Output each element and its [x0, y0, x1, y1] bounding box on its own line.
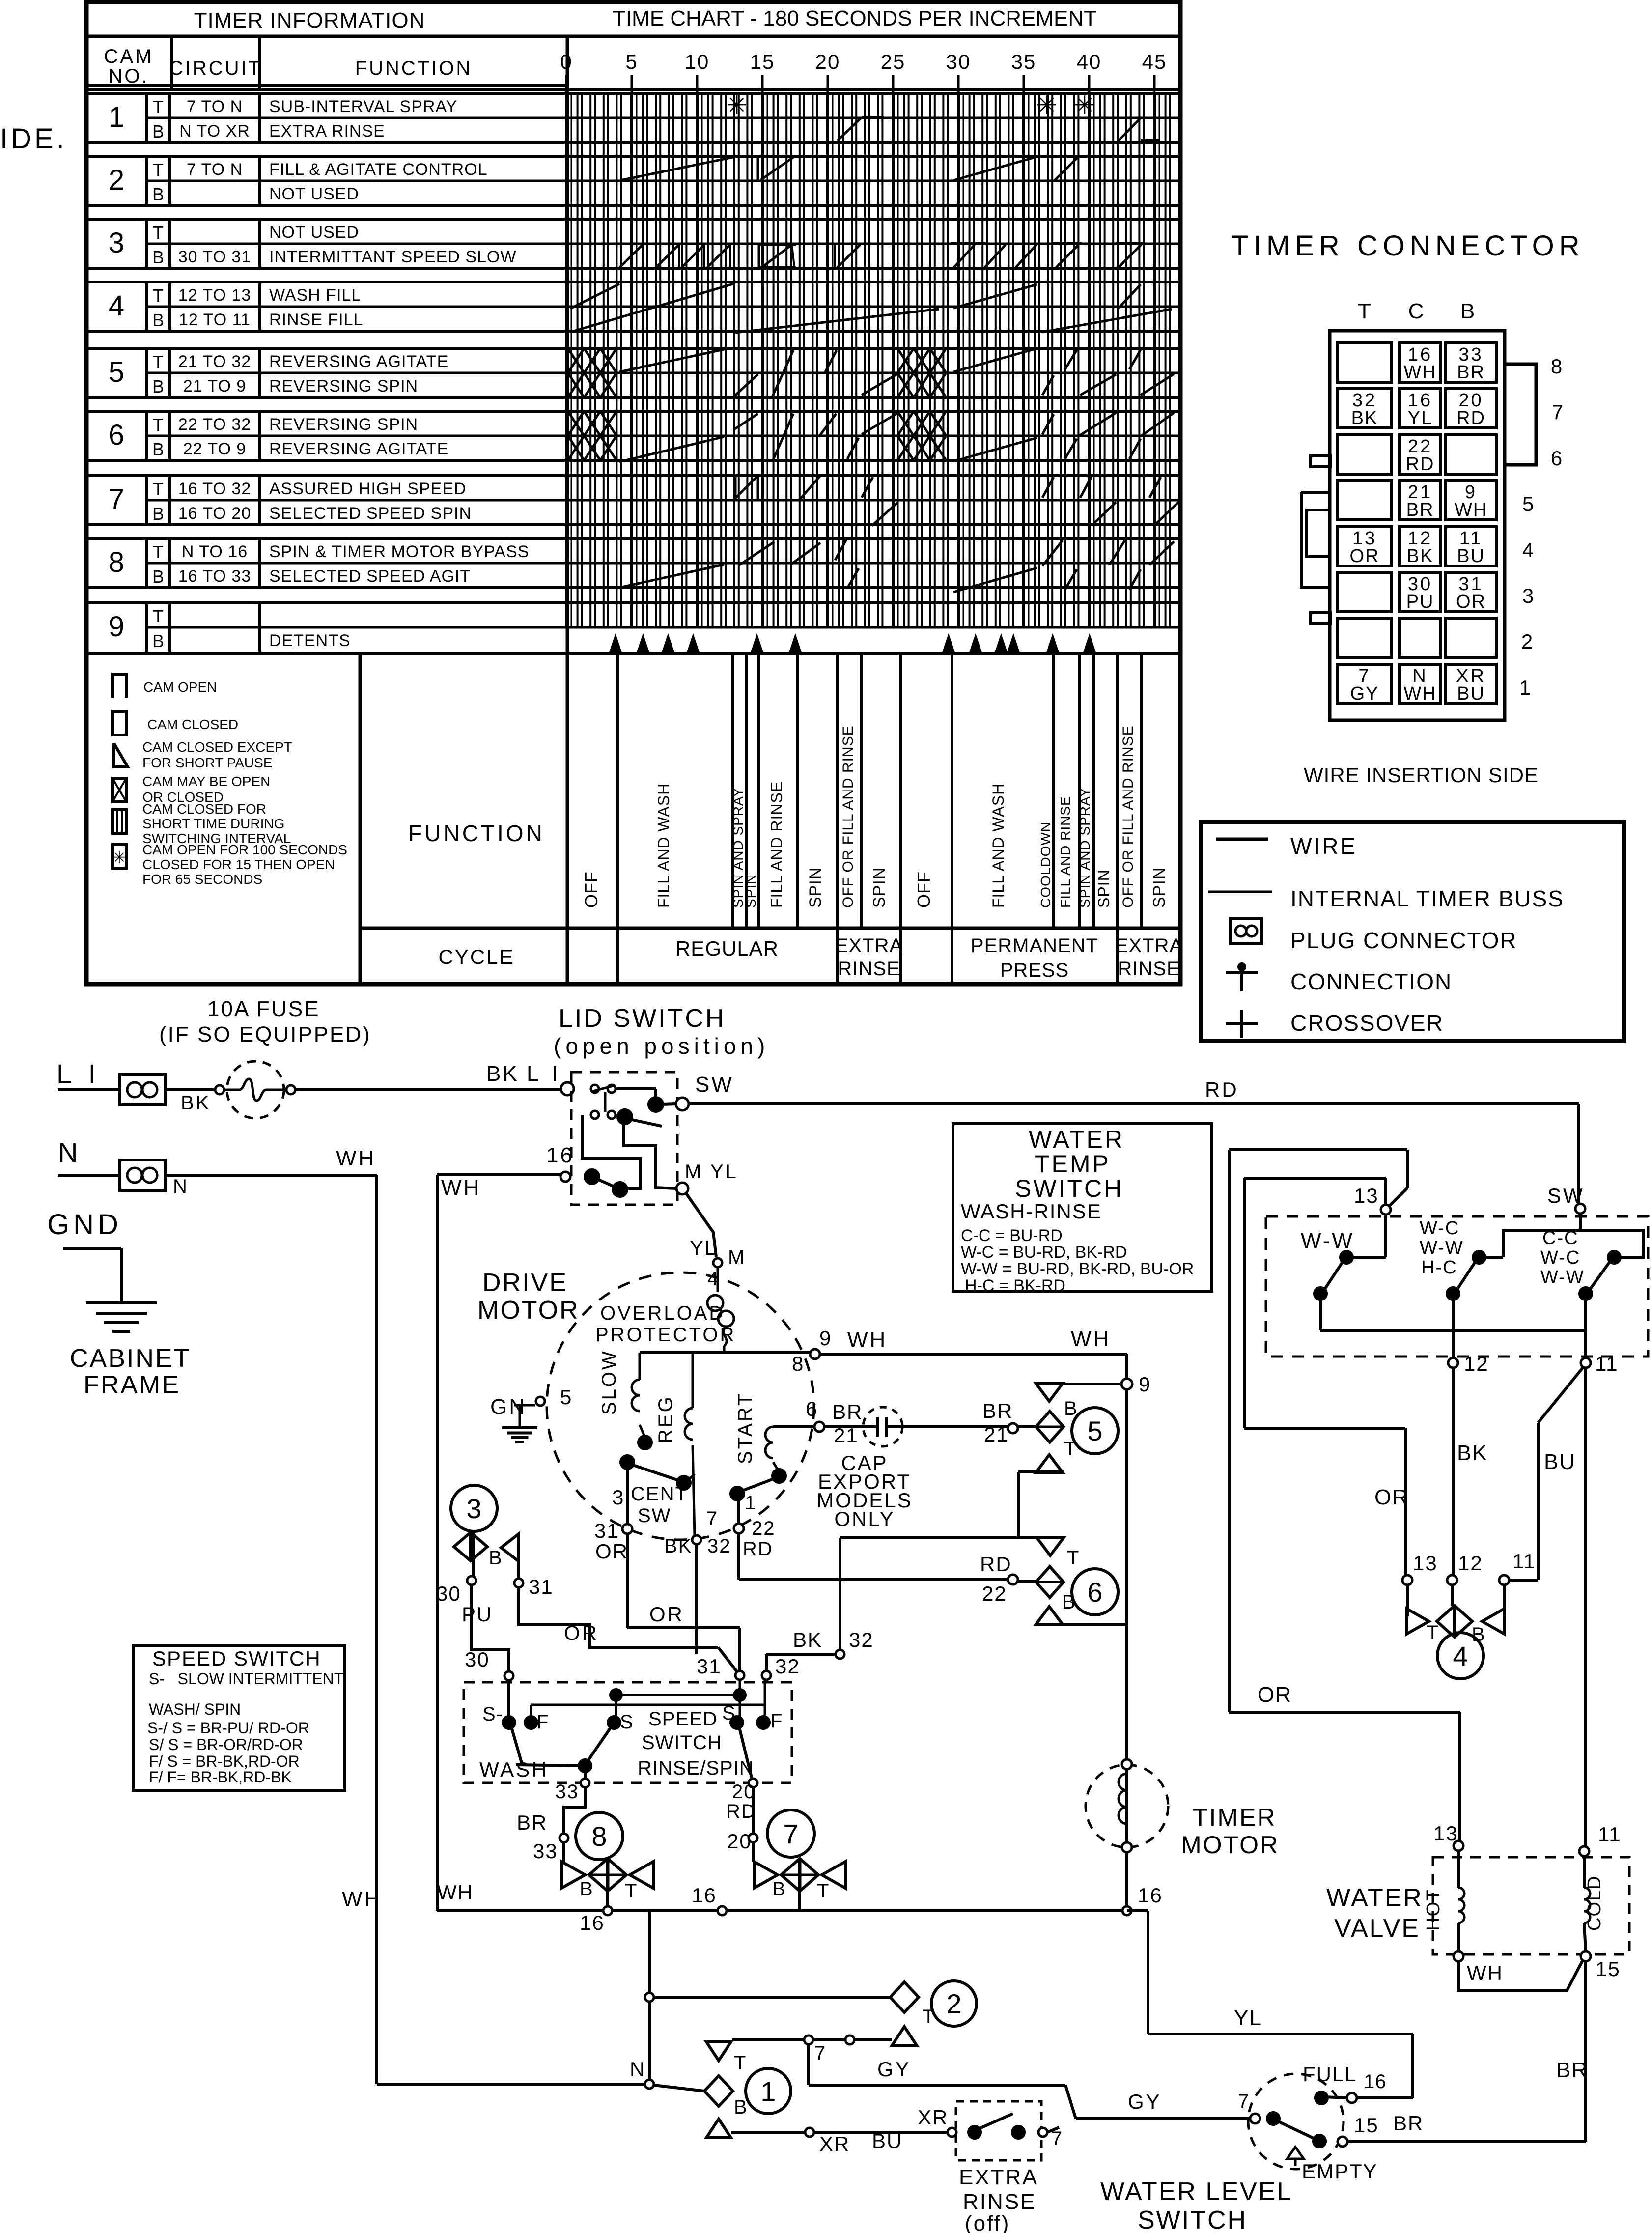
svg-text:FUNCTION: FUNCTION — [408, 820, 545, 846]
svg-text:✳: ✳ — [112, 848, 127, 867]
svg-text:GY: GY — [1350, 683, 1379, 704]
svg-text:SPIN AND SPRAY: SPIN AND SPRAY — [1077, 788, 1092, 908]
svg-text:SW: SW — [1547, 1184, 1585, 1207]
svg-text:16 TO 33: 16 TO 33 — [178, 567, 252, 586]
svg-text:RINSE: RINSE — [1118, 958, 1180, 980]
svg-text:PROTECTOR: PROTECTOR — [595, 1324, 736, 1346]
svg-text:WASH FILL: WASH FILL — [269, 286, 361, 305]
svg-text:(IF SO EQUIPPED): (IF SO EQUIPPED) — [159, 1022, 371, 1046]
svg-text:WH: WH — [1403, 683, 1436, 704]
svg-text:11: 11 — [1595, 1352, 1619, 1375]
svg-text:30: 30 — [946, 50, 971, 73]
svg-text:31: 31 — [594, 1519, 619, 1542]
svg-text:12: 12 — [1464, 1352, 1489, 1375]
svg-text:40: 40 — [1077, 50, 1102, 73]
svg-text:S-: S- — [482, 1703, 503, 1725]
svg-text:XR: XR — [819, 2132, 850, 2155]
svg-text:OR: OR — [1258, 1683, 1292, 1707]
svg-text:DRIVE: DRIVE — [482, 1269, 568, 1297]
svg-text:9: 9 — [109, 611, 124, 643]
svg-text:RINSE/SPIN: RINSE/SPIN — [638, 1757, 754, 1779]
svg-text:WH: WH — [847, 1328, 887, 1352]
svg-text:W-W: W-W — [1420, 1238, 1464, 1258]
svg-text:22 TO 32: 22 TO 32 — [178, 415, 252, 434]
svg-text:SPIN: SPIN — [743, 874, 758, 908]
svg-text:8: 8 — [1551, 355, 1564, 378]
svg-text:BR: BR — [1457, 362, 1485, 383]
svg-text:T: T — [625, 1880, 638, 1902]
svg-text:FILL AND RINSE: FILL AND RINSE — [1058, 796, 1073, 908]
svg-text:SWITCH: SWITCH — [1138, 2206, 1247, 2233]
svg-text:CAM OPEN: CAM OPEN — [143, 679, 217, 695]
svg-text:6: 6 — [109, 419, 124, 451]
svg-text:REG: REG — [655, 1395, 676, 1443]
svg-text:16: 16 — [1138, 1884, 1163, 1907]
svg-text:5: 5 — [1087, 1415, 1102, 1446]
svg-text:S- SLOW INTERMITTENT: S- SLOW INTERMITTENT — [149, 1670, 343, 1688]
svg-text:OFF: OFF — [914, 871, 934, 908]
svg-text:FULL: FULL — [1303, 2063, 1357, 2086]
svg-text:REVERSING AGITATE: REVERSING AGITATE — [269, 352, 448, 371]
svg-text:B: B — [152, 631, 164, 651]
svg-text:SLOW: SLOW — [598, 1349, 620, 1415]
svg-text:LID SWITCH: LID SWITCH — [559, 1004, 726, 1033]
svg-text:7 TO N: 7 TO N — [187, 97, 243, 116]
svg-text:✳: ✳ — [726, 91, 748, 120]
svg-text:3: 3 — [109, 227, 124, 259]
svg-text:FILL AND WASH: FILL AND WASH — [655, 783, 672, 908]
svg-text:20: 20 — [727, 1830, 752, 1853]
svg-text:T: T — [153, 542, 164, 562]
svg-text:FILL AND RINSE: FILL AND RINSE — [768, 781, 785, 908]
svg-text:SWITCH: SWITCH — [1015, 1175, 1123, 1202]
svg-text:11: 11 — [1512, 1550, 1536, 1573]
svg-text:SW: SW — [695, 1073, 734, 1097]
svg-text:CAM CLOSED: CAM CLOSED — [147, 717, 238, 732]
svg-text:S/ S = BR-OR/RD-OR: S/ S = BR-OR/RD-OR — [149, 1736, 303, 1753]
svg-text:SW: SW — [638, 1505, 671, 1526]
svg-text:OR: OR — [564, 1621, 599, 1644]
svg-text:ONLY: ONLY — [834, 1507, 895, 1530]
svg-text:7 TO N: 7 TO N — [187, 160, 243, 179]
svg-text:VALVE: VALVE — [1334, 1914, 1420, 1943]
svg-text:INTERNAL TIMER BUSS: INTERNAL TIMER BUSS — [1290, 886, 1564, 911]
svg-text:WH: WH — [1467, 1961, 1503, 1984]
svg-text:1: 1 — [109, 101, 124, 133]
svg-text:RINSE: RINSE — [963, 2190, 1036, 2214]
svg-text:B: B — [152, 121, 164, 141]
svg-text:W-C = BU-RD, BK-RD: W-C = BU-RD, BK-RD — [961, 1243, 1127, 1262]
svg-text:RD: RD — [980, 1553, 1012, 1576]
svg-text:T: T — [153, 223, 164, 243]
svg-text:YL: YL — [710, 1161, 738, 1183]
svg-text:B: B — [580, 1878, 594, 1900]
svg-text:15: 15 — [1354, 2114, 1379, 2137]
svg-text:13: 13 — [1354, 1184, 1379, 1207]
svg-text:OFF OR FILL AND RINSE: OFF OR FILL AND RINSE — [840, 725, 856, 908]
svg-text:H-C = BK-RD: H-C = BK-RD — [965, 1276, 1065, 1295]
svg-text:B: B — [152, 376, 164, 396]
svg-text:SPIN: SPIN — [1150, 867, 1169, 908]
svg-text:32: 32 — [775, 1655, 800, 1678]
svg-text:30 TO 31: 30 TO 31 — [178, 248, 252, 266]
svg-text:FILL & AGITATE CONTROL: FILL & AGITATE CONTROL — [269, 160, 488, 179]
svg-text:7: 7 — [109, 483, 124, 515]
svg-text:B: B — [152, 566, 164, 587]
svg-text:BR: BR — [982, 1399, 1013, 1422]
svg-text:B: B — [152, 310, 164, 330]
svg-text:8: 8 — [591, 1821, 607, 1852]
svg-text:BK: BK — [1407, 546, 1434, 566]
svg-text:4: 4 — [109, 290, 124, 322]
svg-text:INTERMITTANT SPEED SLOW: INTERMITTANT SPEED SLOW — [269, 248, 516, 266]
svg-text:CAM MAY BE OPEN: CAM MAY BE OPEN — [142, 774, 270, 789]
svg-text:N TO 16: N TO 16 — [182, 542, 248, 561]
svg-text:30: 30 — [465, 1648, 490, 1671]
svg-text:GND: GND — [47, 1209, 122, 1241]
svg-text:T: T — [153, 415, 164, 435]
svg-text:32: 32 — [849, 1628, 874, 1651]
svg-text:CABINET: CABINET — [70, 1344, 191, 1373]
svg-text:WH: WH — [336, 1146, 376, 1170]
svg-text:HOT: HOT — [1423, 1889, 1444, 1931]
svg-text:L I: L I — [56, 1058, 101, 1089]
svg-text:7: 7 — [1238, 2091, 1250, 2112]
svg-text:WASH/ SPIN: WASH/ SPIN — [149, 1700, 241, 1718]
svg-text:3: 3 — [1522, 584, 1535, 607]
svg-text:12 TO 13: 12 TO 13 — [178, 286, 252, 305]
svg-text:20: 20 — [815, 50, 840, 73]
svg-text:RINSE: RINSE — [838, 958, 900, 980]
svg-text:6: 6 — [806, 1397, 818, 1420]
svg-text:FILL AND WASH: FILL AND WASH — [989, 783, 1007, 908]
svg-text:W-W: W-W — [1301, 1229, 1354, 1253]
svg-text:L I: L I — [527, 1062, 561, 1086]
svg-text:RINSE FILL: RINSE FILL — [269, 311, 363, 329]
svg-text:FOR 65 SECONDS: FOR 65 SECONDS — [142, 872, 262, 887]
svg-text:GN: GN — [490, 1395, 527, 1419]
svg-text:PERMANENT: PERMANENT — [971, 935, 1098, 957]
svg-text:T: T — [1067, 1547, 1080, 1569]
svg-text:F/ S = BR-BK,RD-OR: F/ S = BR-BK,RD-OR — [149, 1752, 300, 1770]
svg-text:WIRE INSERTION SIDE: WIRE INSERTION SIDE — [1304, 763, 1539, 787]
svg-text:S: S — [620, 1711, 635, 1733]
svg-text:PU: PU — [462, 1603, 492, 1626]
svg-text:OFF: OFF — [581, 871, 601, 908]
svg-text:BU: BU — [1457, 546, 1485, 566]
svg-text:7: 7 — [814, 2042, 827, 2064]
svg-text:START: START — [734, 1392, 756, 1464]
svg-text:B: B — [152, 184, 164, 204]
svg-text:W-C: W-C — [1540, 1247, 1580, 1268]
svg-text:BR: BR — [1393, 2112, 1424, 2135]
svg-text:(open position): (open position) — [554, 1033, 769, 1059]
svg-text:6: 6 — [1087, 1577, 1102, 1608]
svg-text:N: N — [173, 1176, 189, 1197]
svg-text:GY: GY — [1128, 2090, 1162, 2113]
svg-text:10A FUSE: 10A FUSE — [207, 997, 320, 1021]
svg-text:B: B — [152, 504, 164, 524]
svg-text:31: 31 — [697, 1655, 722, 1678]
svg-text:5: 5 — [109, 356, 124, 388]
svg-text:FRAME: FRAME — [84, 1371, 180, 1399]
svg-text:NO.: NO. — [108, 65, 149, 87]
svg-text:GY: GY — [877, 2058, 911, 2081]
svg-text:B: B — [772, 1878, 787, 1900]
svg-text:WASH: WASH — [479, 1758, 548, 1781]
svg-text:BK: BK — [793, 1628, 822, 1651]
svg-text:OR: OR — [649, 1603, 684, 1626]
svg-text:RD: RD — [1456, 408, 1485, 428]
svg-text:5: 5 — [560, 1385, 573, 1409]
svg-text:CIRCUIT: CIRCUIT — [169, 57, 262, 79]
svg-text:12 TO 11: 12 TO 11 — [179, 311, 251, 329]
svg-text:W-C: W-C — [1420, 1218, 1459, 1239]
svg-text:W-W = BU-RD, BK-RD, BU-OR: W-W = BU-RD, BK-RD, BU-OR — [961, 1260, 1194, 1278]
svg-text:CROSSOVER: CROSSOVER — [1290, 1010, 1444, 1036]
svg-text:B: B — [489, 1547, 504, 1569]
svg-text:SPEED SWITCH: SPEED SWITCH — [152, 1647, 321, 1670]
svg-text:SPIN: SPIN — [870, 867, 889, 908]
svg-text:2: 2 — [1521, 630, 1534, 653]
svg-text:16: 16 — [692, 1884, 717, 1907]
svg-text:B: B — [152, 247, 164, 267]
svg-text:2: 2 — [946, 1988, 961, 2019]
svg-text:N: N — [58, 1137, 79, 1168]
svg-text:CENT: CENT — [631, 1483, 688, 1505]
svg-text:BU: BU — [1457, 683, 1485, 704]
svg-text:C-C: C-C — [1542, 1228, 1579, 1248]
svg-text:10: 10 — [685, 50, 710, 73]
svg-text:OVERLOAD: OVERLOAD — [600, 1302, 725, 1324]
svg-text:CAM CLOSED FOR: CAM CLOSED FOR — [142, 801, 266, 817]
svg-text:2: 2 — [109, 164, 124, 196]
svg-text:OR: OR — [1374, 1485, 1409, 1509]
svg-text:15: 15 — [1596, 1957, 1621, 1980]
svg-text:SUB-INTERVAL SPRAY: SUB-INTERVAL SPRAY — [269, 97, 457, 116]
svg-text:WH: WH — [1071, 1327, 1111, 1351]
svg-text:T: T — [153, 97, 164, 117]
svg-text:CAM OPEN FOR 100 SECONDS: CAM OPEN FOR 100 SECONDS — [142, 842, 347, 857]
svg-text:✳: ✳ — [1036, 91, 1058, 120]
svg-text:21 TO 9: 21 TO 9 — [183, 377, 247, 396]
svg-text:COOLDOWN: COOLDOWN — [1038, 821, 1053, 908]
svg-text:YL: YL — [690, 1236, 717, 1259]
svg-text:S-/ S = BR-PU/ RD-OR: S-/ S = BR-PU/ RD-OR — [147, 1719, 309, 1737]
svg-text:WH: WH — [1455, 500, 1487, 520]
svg-text:13: 13 — [1433, 1822, 1458, 1845]
svg-text:WASH-RINSE: WASH-RINSE — [961, 1200, 1102, 1223]
svg-text:BR: BR — [832, 1400, 863, 1423]
svg-text:IDE.: IDE. — [0, 123, 67, 155]
svg-text:22 TO 9: 22 TO 9 — [183, 440, 247, 458]
svg-text:WH: WH — [1403, 362, 1436, 383]
svg-text:16 TO 32: 16 TO 32 — [178, 480, 252, 498]
svg-text:BR: BR — [1556, 2058, 1588, 2082]
svg-text:SPIN & TIMER MOTOR BYPASS: SPIN & TIMER MOTOR BYPASS — [269, 542, 529, 561]
svg-text:B: B — [152, 439, 164, 459]
svg-text:DETENTS: DETENTS — [269, 631, 351, 650]
svg-text:WH: WH — [342, 1887, 382, 1911]
svg-text:WH: WH — [441, 1176, 481, 1200]
svg-text:33: 33 — [533, 1839, 558, 1863]
svg-text:SHORT TIME DURING: SHORT TIME DURING — [142, 816, 284, 831]
svg-text:31: 31 — [529, 1575, 554, 1598]
svg-text:32: 32 — [707, 1535, 731, 1557]
svg-text:WATER: WATER — [1326, 1884, 1423, 1912]
svg-text:3: 3 — [466, 1493, 481, 1524]
svg-text:CAM CLOSED EXCEPT: CAM CLOSED EXCEPT — [142, 739, 292, 755]
svg-text:25: 25 — [881, 50, 906, 73]
svg-text:CYCLE: CYCLE — [438, 945, 514, 968]
svg-text:22: 22 — [982, 1582, 1007, 1605]
svg-text:35: 35 — [1011, 50, 1036, 73]
svg-text:WIRE: WIRE — [1290, 833, 1357, 859]
svg-text:8: 8 — [109, 546, 124, 578]
svg-text:BK: BK — [1351, 408, 1378, 428]
svg-text:REVERSING SPIN: REVERSING SPIN — [269, 377, 418, 396]
svg-text:FOR SHORT PAUSE: FOR SHORT PAUSE — [142, 755, 273, 770]
svg-text:PRESS: PRESS — [1000, 960, 1069, 981]
svg-text:7: 7 — [706, 1508, 719, 1529]
svg-text:REVERSING AGITATE: REVERSING AGITATE — [269, 440, 448, 458]
svg-text:21 TO 32: 21 TO 32 — [178, 352, 252, 371]
svg-text:EXTRA: EXTRA — [959, 2165, 1038, 2189]
svg-text:21: 21 — [984, 1423, 1009, 1446]
svg-text:WH: WH — [437, 1881, 474, 1904]
svg-text:RD: RD — [1406, 454, 1435, 475]
svg-text:CONNECTION: CONNECTION — [1290, 969, 1452, 994]
svg-text:WATER: WATER — [1029, 1126, 1124, 1153]
svg-text:1: 1 — [1519, 676, 1532, 699]
svg-text:ASSURED HIGH SPEED: ASSURED HIGH SPEED — [269, 480, 467, 498]
svg-text:5: 5 — [625, 50, 638, 73]
svg-text:7: 7 — [1552, 400, 1565, 424]
svg-text:BR: BR — [517, 1811, 547, 1834]
svg-text:NOT USED: NOT USED — [269, 185, 359, 203]
svg-text:EXTRA: EXTRA — [835, 935, 903, 957]
svg-text:MOTOR: MOTOR — [1181, 1831, 1279, 1859]
svg-text:OR: OR — [595, 1540, 628, 1563]
svg-text:CLOSED FOR 15 THEN OPEN: CLOSED FOR 15 THEN OPEN — [142, 857, 335, 872]
svg-text:6: 6 — [1551, 447, 1564, 470]
svg-text:SELECTED SPEED AGIT: SELECTED SPEED AGIT — [269, 567, 471, 586]
svg-text:PU: PU — [1406, 592, 1434, 612]
svg-text:22: 22 — [752, 1518, 776, 1539]
svg-text:9: 9 — [819, 1327, 832, 1350]
svg-text:TIMER: TIMER — [1193, 1804, 1277, 1831]
svg-text:OR: OR — [1456, 592, 1486, 612]
svg-text:7: 7 — [783, 1818, 798, 1849]
svg-text:BR: BR — [1406, 500, 1434, 520]
svg-text:YL: YL — [1408, 408, 1432, 428]
svg-text:REGULAR: REGULAR — [675, 937, 779, 960]
svg-text:REVERSING SPIN: REVERSING SPIN — [269, 415, 418, 434]
svg-text:EXTRA: EXTRA — [1115, 935, 1183, 957]
svg-text:T: T — [153, 160, 164, 180]
svg-text:MOTOR: MOTOR — [477, 1296, 580, 1325]
svg-text:✳: ✳ — [1074, 91, 1095, 120]
svg-text:30: 30 — [436, 1582, 461, 1605]
svg-text:F/ F= BR-BK,RD-BK: F/ F= BR-BK,RD-BK — [149, 1768, 292, 1786]
svg-text:TEMP: TEMP — [1035, 1150, 1111, 1178]
svg-text:C-C = BU-RD: C-C = BU-RD — [961, 1226, 1063, 1245]
svg-text:T: T — [153, 352, 164, 372]
svg-text:B: B — [1460, 299, 1476, 323]
svg-text:SPIN: SPIN — [806, 867, 825, 908]
svg-text:H-C: H-C — [1421, 1257, 1457, 1278]
svg-text:OR: OR — [1350, 546, 1380, 566]
svg-text:TIMER INFORMATION: TIMER INFORMATION — [194, 8, 425, 32]
svg-text:BK: BK — [664, 1535, 692, 1557]
svg-text:BK: BK — [486, 1062, 519, 1086]
svg-text:F: F — [536, 1711, 550, 1733]
svg-text:OFF OR FILL AND RINSE: OFF OR FILL AND RINSE — [1120, 725, 1136, 908]
svg-text:16: 16 — [1364, 2071, 1387, 2092]
svg-text:1: 1 — [760, 2076, 776, 2107]
svg-text:4: 4 — [1522, 538, 1535, 562]
svg-text:16 TO 20: 16 TO 20 — [178, 504, 252, 523]
svg-text:TIME CHART - 180 SECONDS PER I: TIME CHART - 180 SECONDS PER INCREMENT — [613, 6, 1097, 30]
svg-text:3: 3 — [612, 1486, 625, 1509]
svg-text:W-W: W-W — [1540, 1267, 1585, 1288]
svg-text:T: T — [1427, 1622, 1440, 1643]
svg-text:FUNCTION: FUNCTION — [355, 57, 473, 79]
svg-text:T: T — [153, 606, 164, 626]
svg-text:4: 4 — [1453, 1640, 1468, 1671]
svg-text:N: N — [630, 2058, 646, 2081]
svg-text:CAM: CAM — [104, 46, 154, 67]
svg-text:RD: RD — [743, 1538, 773, 1560]
svg-text:XR: XR — [918, 2106, 948, 2129]
svg-text:BU: BU — [872, 2129, 902, 2152]
svg-text:BU: BU — [1544, 1450, 1576, 1474]
svg-text:F: F — [770, 1710, 784, 1732]
svg-text:SPIN: SPIN — [1095, 869, 1113, 908]
svg-text:T: T — [153, 285, 164, 306]
svg-text:NOT USED: NOT USED — [269, 223, 359, 242]
svg-text:13: 13 — [1413, 1552, 1438, 1575]
svg-text:T: T — [1358, 299, 1372, 323]
svg-text:SELECTED SPEED SPIN: SELECTED SPEED SPIN — [269, 504, 472, 523]
svg-text:N TO XR: N TO XR — [179, 122, 250, 141]
svg-text:PLUG CONNECTOR: PLUG CONNECTOR — [1290, 928, 1517, 953]
svg-text:9: 9 — [1139, 1373, 1151, 1396]
svg-text:YL: YL — [1234, 2006, 1262, 2030]
svg-text:33: 33 — [555, 1781, 579, 1803]
svg-text:16: 16 — [546, 1143, 574, 1167]
svg-text:SPEED: SPEED — [648, 1708, 718, 1730]
svg-text:SWITCH: SWITCH — [642, 1732, 722, 1753]
svg-text:(off): (off) — [965, 2211, 1010, 2233]
svg-text:T: T — [817, 1880, 830, 1902]
svg-text:WATER LEVEL: WATER LEVEL — [1100, 2177, 1292, 2206]
svg-text:RD: RD — [1205, 1078, 1239, 1101]
svg-text:BK: BK — [1457, 1441, 1488, 1465]
svg-text:C: C — [1408, 299, 1426, 323]
svg-text:1: 1 — [745, 1492, 757, 1514]
svg-text:15: 15 — [750, 50, 775, 73]
svg-text:11: 11 — [1598, 1823, 1622, 1846]
svg-text:M: M — [685, 1161, 702, 1183]
svg-text:12: 12 — [1458, 1552, 1483, 1575]
svg-text:5: 5 — [1522, 492, 1535, 515]
svg-text:BK: BK — [181, 1092, 211, 1114]
svg-text:EMPTY: EMPTY — [1302, 2160, 1378, 2183]
svg-text:45: 45 — [1142, 50, 1167, 73]
svg-text:8: 8 — [792, 1352, 805, 1375]
svg-text:T: T — [153, 479, 164, 499]
